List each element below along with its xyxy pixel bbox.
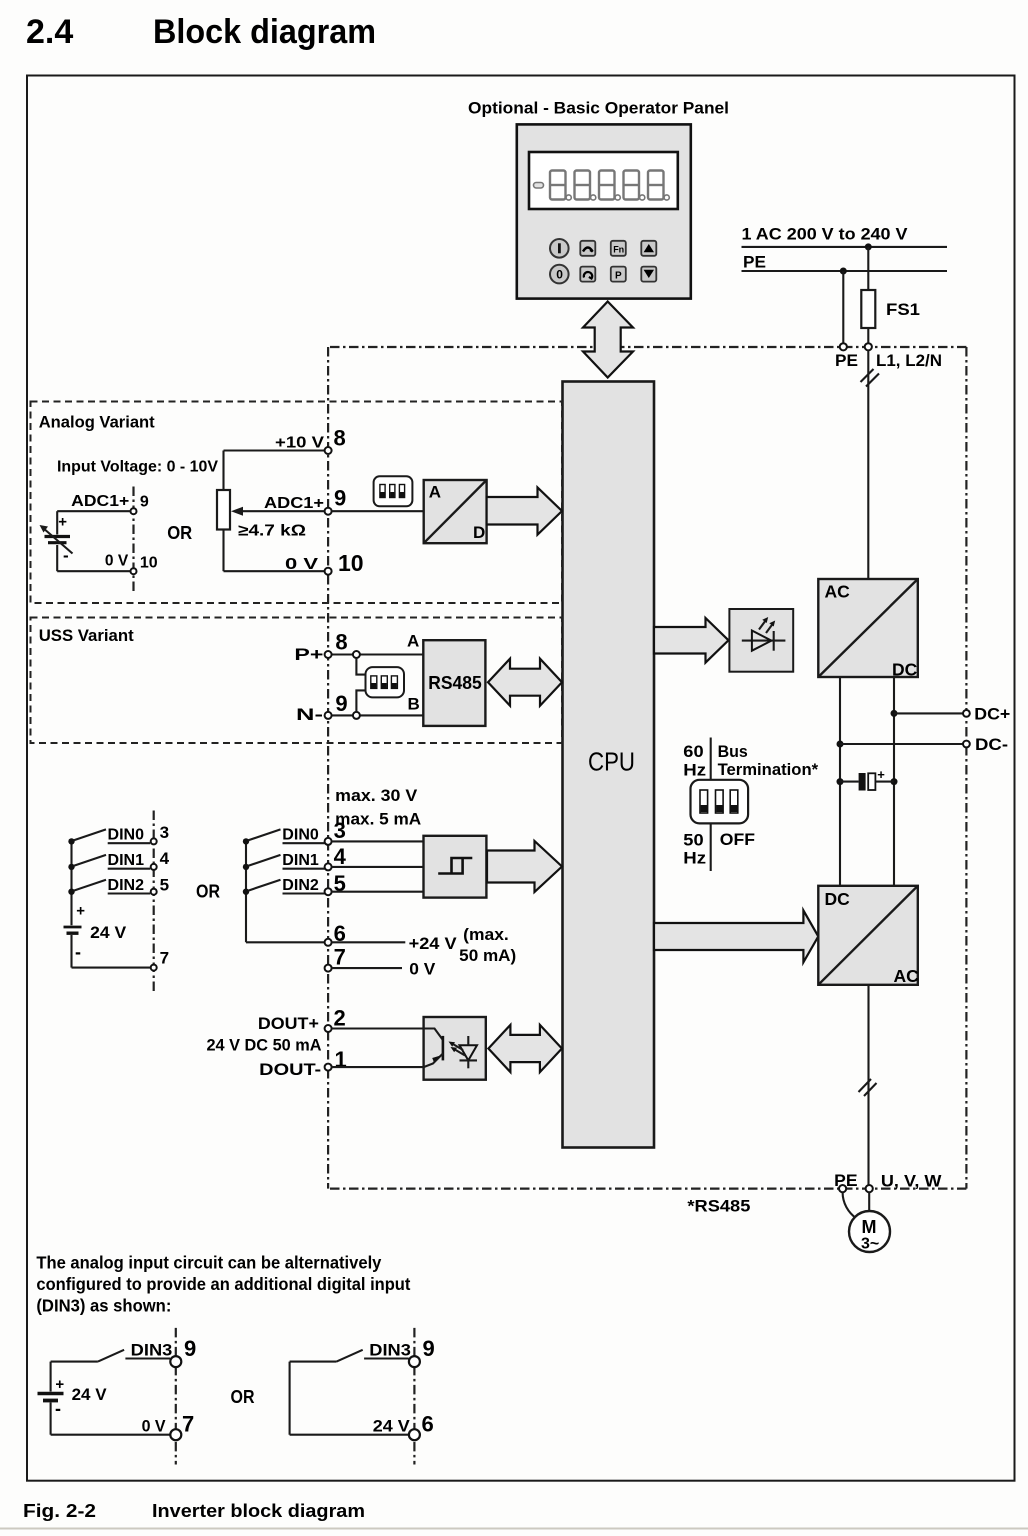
- svg-text:L1, L2/N: L1, L2/N: [876, 351, 942, 370]
- svg-text:9: 9: [423, 1336, 435, 1361]
- svg-text:2: 2: [334, 1005, 346, 1030]
- svg-text:DIN0: DIN0: [282, 827, 319, 844]
- svg-text:Block diagram: Block diagram: [153, 13, 376, 51]
- svg-text:Termination*: Termination*: [718, 760, 819, 779]
- svg-text:A: A: [429, 483, 441, 502]
- svg-text:DC-: DC-: [975, 735, 1008, 754]
- svg-text:max. 5 mA: max. 5 mA: [335, 810, 421, 829]
- svg-text:2.4: 2.4: [26, 13, 73, 51]
- svg-text:+: +: [877, 767, 885, 782]
- svg-text:DIN0: DIN0: [108, 827, 145, 844]
- svg-text:Bus: Bus: [718, 742, 748, 761]
- svg-text:P: P: [615, 270, 622, 281]
- svg-text:Analog Variant: Analog Variant: [39, 413, 155, 432]
- svg-text:Optional - Basic Operator Pane: Optional - Basic Operator Panel: [468, 99, 729, 118]
- svg-text:5: 5: [160, 876, 169, 895]
- svg-text:≥4.7 kΩ: ≥4.7 kΩ: [238, 523, 306, 540]
- svg-text:50: 50: [683, 831, 703, 850]
- svg-text:1 AC 200 V to 240 V: 1 AC 200 V to 240 V: [742, 225, 909, 244]
- svg-text:*RS485: *RS485: [687, 1197, 750, 1216]
- svg-text:DIN2: DIN2: [282, 877, 319, 894]
- svg-text:DIN1: DIN1: [282, 852, 319, 869]
- svg-text:+: +: [58, 513, 67, 530]
- svg-text:N-: N-: [296, 705, 323, 724]
- svg-text:RS485: RS485: [428, 673, 482, 693]
- svg-text:U, V, W: U, V, W: [881, 1172, 943, 1191]
- svg-text:D: D: [473, 523, 485, 542]
- svg-text:(DIN3) as shown:: (DIN3) as shown:: [36, 1295, 171, 1315]
- svg-text:OR: OR: [167, 523, 192, 543]
- svg-text:7: 7: [182, 1412, 194, 1437]
- svg-text:DOUT-: DOUT-: [259, 1060, 321, 1079]
- svg-text:0 V: 0 V: [105, 553, 129, 570]
- svg-text:DIN2: DIN2: [108, 877, 145, 894]
- svg-text:+10 V: +10 V: [275, 435, 324, 452]
- svg-text:60: 60: [683, 742, 703, 761]
- svg-text:DOUT+: DOUT+: [258, 1014, 319, 1033]
- svg-text:50 mA): 50 mA): [459, 946, 516, 965]
- svg-text:(max.: (max.: [463, 925, 509, 944]
- svg-text:FS1: FS1: [886, 300, 920, 319]
- svg-text:7: 7: [334, 945, 346, 970]
- svg-text:24 V DC 50 mA: 24 V DC 50 mA: [207, 1036, 322, 1055]
- svg-text:Fig. 2-2: Fig. 2-2: [23, 1500, 96, 1521]
- svg-text:The analog input circuit can b: The analog input circuit can be alternat…: [36, 1252, 381, 1272]
- svg-text:B: B: [408, 695, 420, 714]
- svg-text:-: -: [63, 546, 69, 565]
- svg-text:+: +: [76, 902, 85, 919]
- svg-text:9: 9: [184, 1336, 196, 1361]
- svg-text:Inverter block diagram: Inverter block diagram: [152, 1500, 365, 1521]
- svg-text:P+: P+: [294, 645, 323, 664]
- svg-text:Fn: Fn: [613, 245, 624, 255]
- svg-text:3: 3: [160, 823, 169, 842]
- svg-text:3~: 3~: [861, 1236, 879, 1253]
- svg-text:-: -: [55, 1399, 61, 1419]
- svg-text:ADC1+: ADC1+: [71, 493, 129, 510]
- svg-text:9: 9: [334, 486, 346, 511]
- svg-text:max. 30 V: max. 30 V: [335, 786, 418, 805]
- svg-text:AC: AC: [825, 582, 851, 602]
- svg-text:9: 9: [140, 494, 149, 511]
- svg-text:USS Variant: USS Variant: [39, 626, 134, 645]
- svg-text:9: 9: [335, 691, 347, 716]
- svg-text:1: 1: [335, 1047, 347, 1072]
- svg-text:PE: PE: [835, 351, 858, 370]
- svg-text:OR: OR: [231, 1387, 255, 1407]
- svg-text:10: 10: [140, 555, 158, 572]
- svg-text:CPU: CPU: [588, 747, 635, 777]
- svg-text:Hz: Hz: [683, 761, 706, 780]
- svg-text:24 V: 24 V: [72, 1385, 108, 1404]
- svg-text:Hz: Hz: [683, 848, 706, 867]
- svg-text:M: M: [862, 1217, 877, 1237]
- svg-text:0: 0: [556, 268, 563, 282]
- svg-text:+24 V: +24 V: [409, 934, 458, 953]
- svg-text:24 V: 24 V: [90, 923, 127, 942]
- svg-text:OR: OR: [196, 882, 220, 902]
- svg-text:DC: DC: [892, 660, 918, 680]
- svg-text:3: 3: [334, 818, 346, 843]
- svg-text:+: +: [55, 1376, 64, 1393]
- svg-text:DIN3: DIN3: [131, 1341, 173, 1360]
- svg-text:DIN3: DIN3: [369, 1341, 411, 1360]
- svg-text:4: 4: [160, 849, 170, 868]
- svg-text:0 V: 0 V: [142, 1417, 167, 1436]
- svg-text:DIN1: DIN1: [108, 852, 145, 869]
- svg-text:8: 8: [335, 630, 347, 655]
- svg-text:24 V: 24 V: [373, 1417, 411, 1436]
- svg-text:configured to provide an addit: configured to provide an additional digi…: [36, 1274, 410, 1294]
- svg-text:-: -: [75, 942, 81, 962]
- svg-text:OFF: OFF: [720, 830, 755, 849]
- svg-text:PE: PE: [834, 1171, 857, 1190]
- svg-text:AC: AC: [894, 966, 920, 986]
- svg-text:4: 4: [334, 844, 347, 869]
- svg-text:10: 10: [338, 550, 364, 576]
- svg-text:0 V: 0 V: [409, 960, 436, 979]
- svg-text:8: 8: [334, 426, 346, 451]
- svg-text:DC: DC: [825, 889, 851, 909]
- svg-text:Input Voltage: 0 - 10V: Input Voltage: 0 - 10V: [57, 459, 218, 476]
- svg-text:7: 7: [160, 949, 169, 968]
- svg-text:DC+: DC+: [974, 705, 1010, 724]
- svg-text:A: A: [407, 632, 419, 651]
- svg-text:6: 6: [422, 1412, 434, 1437]
- svg-text:ADC1+: ADC1+: [264, 495, 324, 512]
- svg-text:PE: PE: [743, 253, 766, 272]
